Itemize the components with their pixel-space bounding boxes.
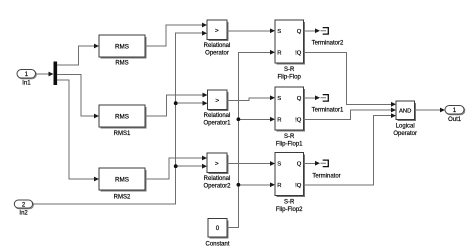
svg-text:!Q: !Q: [295, 183, 302, 189]
sink Terminator1: [312, 95, 344, 114]
svg-text:Relational: Relational: [204, 113, 231, 119]
wire S-R Flip-Flop2 Q to Terminator: [304, 161, 321, 166]
block Relational Operator2: [203, 153, 231, 190]
wire demux to RMS: [57, 44, 99, 65]
svg-text:Operator: Operator: [393, 131, 417, 137]
block Constant value 0: [205, 219, 229, 248]
svg-text:!Q: !Q: [295, 51, 302, 57]
block S-R Flip-Flop1: [275, 87, 305, 148]
wire RMS1 to Relational Operator1 input 1: [145, 93, 208, 116]
wire Relational Operator to S-R Flip-Flop S input: [227, 28, 275, 33]
junction on R bus at S-R Flip-Flop2: [237, 183, 241, 187]
svg-text:R: R: [277, 118, 281, 124]
block RMS1: [99, 105, 146, 137]
svg-text:Out1: Out1: [448, 117, 462, 123]
svg-text:R: R: [277, 51, 281, 57]
svg-text:Terminator1: Terminator1: [312, 107, 344, 113]
sink Terminator2: [312, 28, 344, 47]
block RMS: [99, 35, 146, 67]
wire demux to RMS2: [57, 80, 99, 181]
svg-text:RMS: RMS: [115, 43, 129, 50]
svg-text:RMS1: RMS1: [114, 131, 131, 137]
svg-text:RMS: RMS: [115, 176, 129, 183]
block Relational Operator: [204, 20, 231, 57]
svg-text:Operator2: Operator2: [203, 184, 231, 190]
svg-text:Logical: Logical: [396, 123, 415, 129]
junction on In2 bus at Relational Operator1: [174, 101, 178, 105]
svg-text:RMS: RMS: [115, 61, 128, 67]
wire S-R Flip-Flop2 notQ to Logical Operator input 3: [304, 113, 397, 185]
sink Terminator: [312, 160, 340, 179]
svg-text:Operator1: Operator1: [203, 121, 231, 127]
svg-text:R: R: [277, 183, 281, 189]
svg-text:0: 0: [216, 225, 220, 232]
wire S-R Flip-Flop1 notQ to Logical Operator input 2: [304, 108, 397, 120]
wire RMS2 to Relational Operator2 input 1: [145, 156, 207, 179]
svg-text:S: S: [277, 29, 281, 35]
output port Out1: [445, 106, 465, 124]
junction on R bus at S-R Flip-Flop1: [237, 117, 241, 121]
svg-text:In2: In2: [19, 211, 28, 217]
svg-text:Flip-Flop2: Flip-Flop2: [276, 207, 303, 213]
svg-text:Terminator2: Terminator2: [312, 40, 344, 46]
svg-text:!Q: !Q: [295, 118, 302, 124]
svg-text:Q: Q: [297, 29, 302, 35]
svg-text:Flip-Flop1: Flip-Flop1: [276, 142, 303, 148]
svg-text:Constant: Constant: [205, 241, 229, 247]
wire Constant to R bus feeding flip-flop R inputs: [227, 50, 275, 228]
junction on In2 bus at Relational Operator2: [174, 164, 178, 168]
wire Relational Operator2 to S-R Flip-Flop2 S input: [227, 161, 275, 166]
svg-text:AND: AND: [399, 108, 411, 114]
wire RMS to Relational Operator input 1: [145, 23, 207, 46]
wire S-R Flip-Flop notQ to Logical Operator input 1: [304, 52, 397, 106]
block RMS2: [99, 168, 146, 201]
svg-text:>: >: [215, 161, 219, 168]
wire S-R Flip-Flop1 Q to Terminator1: [304, 95, 321, 100]
svg-text:>: >: [215, 98, 219, 105]
block S-R Flip-Flop2: [275, 153, 305, 214]
svg-text:RMS2: RMS2: [114, 195, 131, 201]
input port In2: [14, 200, 33, 217]
svg-text:S-R: S-R: [284, 199, 295, 205]
wire Relational Operator1 to S-R Flip-Flop1 S input: [227, 95, 275, 100]
wire In1 to demux bar: [36, 72, 54, 77]
wire In2 bus to relational operators second inputs: [33, 31, 208, 204]
svg-text:S-R: S-R: [284, 67, 295, 73]
svg-text:S-R: S-R: [284, 134, 295, 140]
svg-text:Relational: Relational: [204, 176, 231, 182]
svg-text:S: S: [277, 96, 281, 102]
block S-R Flip-Flop: [275, 20, 305, 81]
svg-text:Terminator: Terminator: [312, 173, 340, 179]
svg-text:Relational: Relational: [204, 43, 231, 49]
svg-text:In1: In1: [22, 81, 31, 87]
block Logical Operator AND: [393, 101, 417, 137]
wire S-R Flip-Flop Q to Terminator2: [304, 28, 321, 33]
svg-text:Flip-Flop: Flip-Flop: [278, 75, 302, 81]
svg-text:>: >: [215, 28, 219, 35]
block Relational Operator1: [203, 90, 231, 127]
svg-text:Q: Q: [297, 162, 302, 168]
svg-text:Operator: Operator: [205, 51, 229, 57]
svg-text:RMS: RMS: [115, 113, 129, 120]
svg-text:S: S: [277, 162, 281, 168]
svg-text:Q: Q: [297, 96, 302, 102]
demux bar: [54, 62, 58, 86]
input port In1: [17, 70, 36, 87]
wire Logical Operator to Out1: [415, 108, 446, 113]
wire demux to RMS1: [57, 75, 99, 119]
